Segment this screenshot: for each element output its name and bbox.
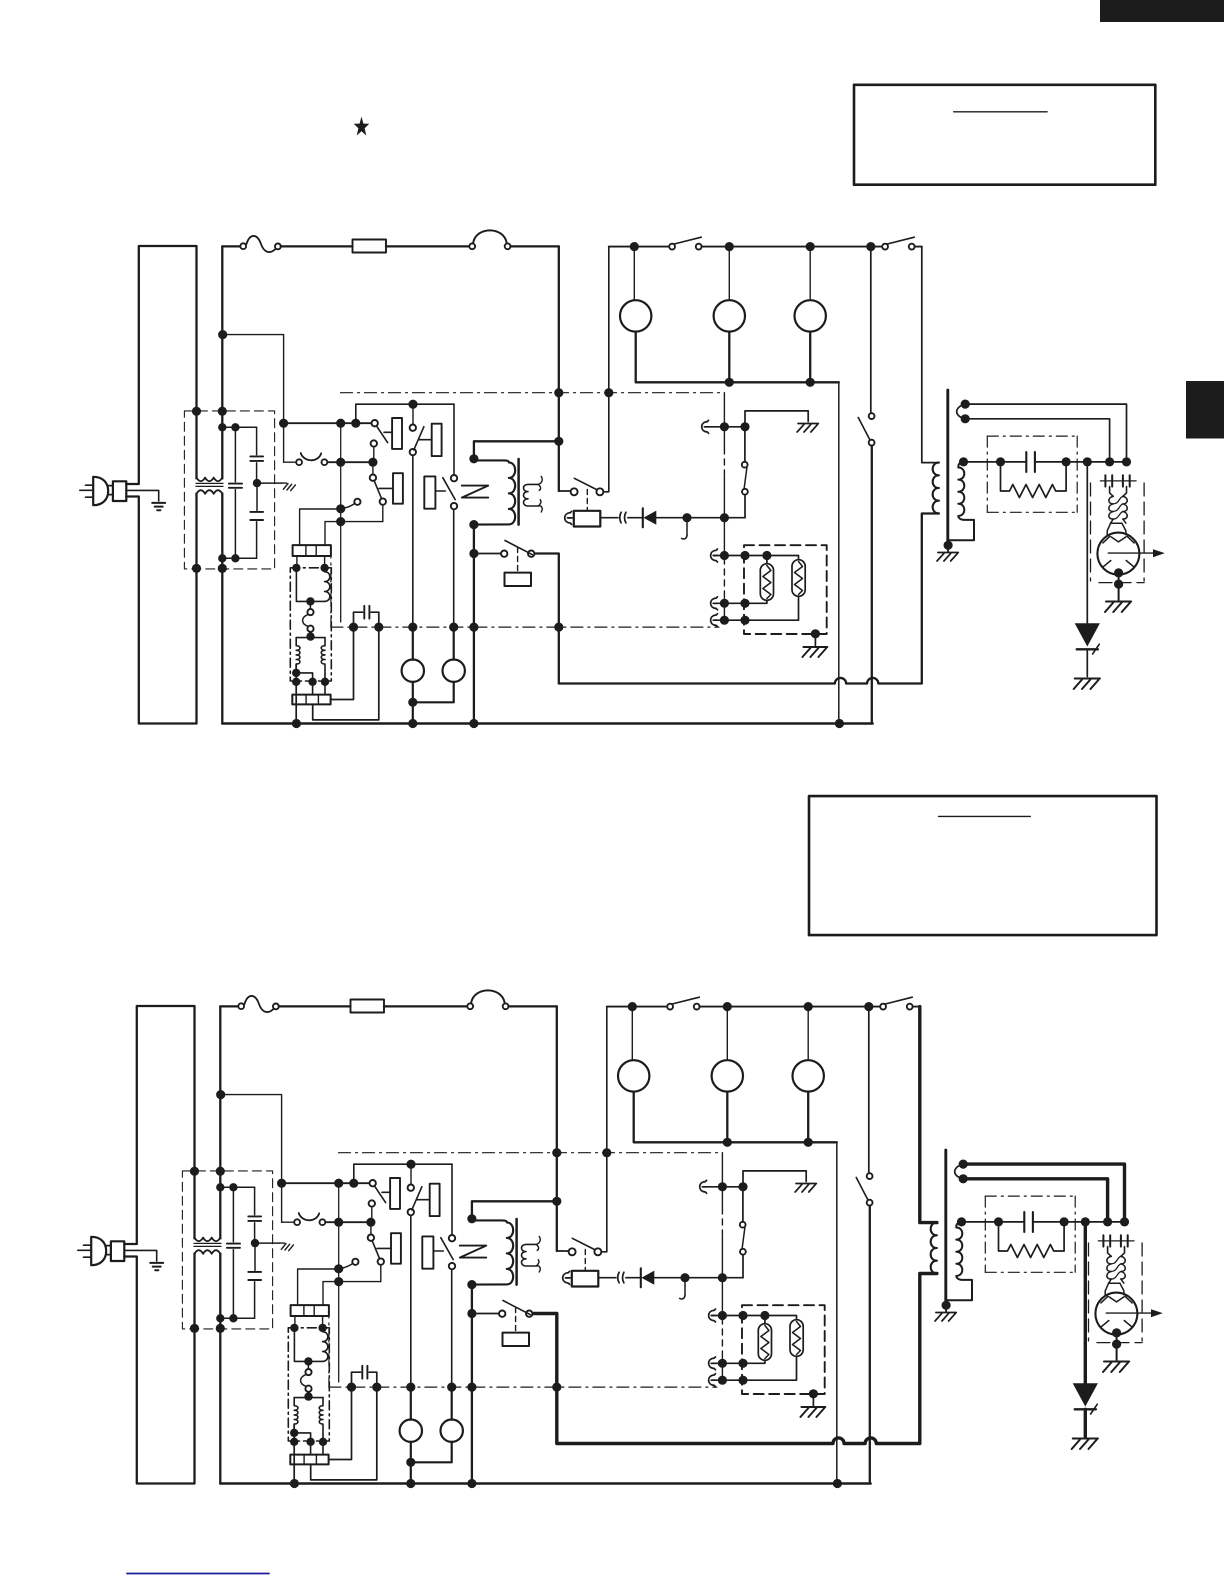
relay RY5 armature mark <box>462 486 488 498</box>
switch S2 secondary interlock <box>296 459 302 465</box>
schematic bottom model <box>78 990 1163 1488</box>
node motor junction J33 <box>406 1458 415 1467</box>
node lamp bus J5 <box>723 1138 732 1147</box>
transformer HVT secondary winding <box>948 462 974 540</box>
AC plug P1 prongs <box>78 1245 91 1257</box>
switch S5 relay contact <box>569 1248 576 1255</box>
wire thermistor branch <box>744 495 746 518</box>
node relay row J13 <box>336 419 345 428</box>
motor TTM turntable <box>714 300 745 331</box>
node filter input L <box>192 407 201 416</box>
link S4 dashed <box>515 1308 517 1333</box>
node motor junction J33 <box>408 698 417 707</box>
wire cabinet outline left loop <box>124 1006 194 1484</box>
wire fuse to thermal cutout <box>384 1005 467 1007</box>
wire power relay feed <box>472 1201 557 1219</box>
wire heater row mid <box>709 1357 716 1370</box>
node filter cap A tap <box>229 1183 237 1191</box>
wire relay row upper <box>282 1182 370 1184</box>
page corner tab black <box>1100 0 1224 22</box>
wire LVT mid lead <box>296 673 312 695</box>
node mid row J17 <box>368 458 377 467</box>
link S5 dashed <box>584 1250 586 1271</box>
capacitor CP control <box>354 612 363 627</box>
wire control column <box>340 423 342 622</box>
wire CP left lead to TB2 <box>329 1387 352 1459</box>
wire HV diode feed <box>1084 1222 1087 1383</box>
switch S2 secondary interlock <box>294 1219 300 1225</box>
node HVT filament tap B <box>961 414 970 423</box>
node filter bottom cap tap <box>231 554 239 562</box>
wire S5 right to rail drop <box>603 247 608 492</box>
ground heater earth <box>800 1407 825 1417</box>
wire HV line right of capacitor <box>1033 1221 1125 1223</box>
solenoid S4 coil body <box>505 573 532 586</box>
magnetron filament feedthrough marks <box>1100 480 1136 482</box>
node LVT out C <box>321 678 329 686</box>
node HVT filament tap A <box>959 1160 968 1169</box>
magnetron internal electrodes <box>1111 537 1126 542</box>
link S5 dashed <box>586 490 588 511</box>
node HV line J8 <box>1060 1217 1069 1226</box>
wire diode row to corner <box>656 517 745 519</box>
terminal CN1 open <box>352 1259 358 1265</box>
switch S3 monitor <box>869 413 875 419</box>
node HV line J8 <box>1062 457 1071 466</box>
node heater mid J29 <box>718 1359 727 1368</box>
node filter bottom N tap <box>216 1314 224 1322</box>
motor TTM turntable <box>712 1060 743 1091</box>
node main line J20 <box>554 437 563 446</box>
diode DH high voltage <box>1075 623 1100 646</box>
node power relay top <box>469 454 478 463</box>
wire filament lead upper <box>963 1164 1124 1218</box>
relay coil RY1 body <box>392 418 402 449</box>
node upper row J24 <box>718 1182 727 1191</box>
wire filter top row <box>222 426 256 428</box>
wire relay mid row <box>325 1221 372 1223</box>
capacitor CF1 across line <box>232 1187 234 1242</box>
wire TB1 right down <box>322 1316 324 1328</box>
node HV line J10 <box>1103 1217 1112 1226</box>
node control J18 <box>334 1264 343 1273</box>
wire control column <box>338 1183 340 1382</box>
wire J18 to terminal board <box>300 509 341 545</box>
transformer HVT filament winding curl <box>955 1165 963 1179</box>
node filter output N <box>216 1324 225 1333</box>
magnetron filament feedthrough marks <box>1098 1240 1134 1242</box>
node bus J34 <box>406 1479 415 1488</box>
wire motor FM feed <box>809 247 811 301</box>
relay RY5 core <box>517 459 520 525</box>
wire RY4 feed drop <box>453 404 455 475</box>
capacitor box dashed outline <box>985 1195 1075 1197</box>
LVT box dash-dot outline <box>288 1328 329 1441</box>
wire rail to monitor branch <box>701 246 882 248</box>
wire LVT left lead to bus <box>295 664 297 723</box>
wire control neutral column <box>721 1153 723 1208</box>
capacitor CF2 line to earth upper <box>254 1187 256 1214</box>
node LVT out C <box>319 1438 327 1446</box>
wire cabinet outline left loop <box>126 246 196 724</box>
node heater bottom J31 <box>718 1376 727 1385</box>
wire top live from corner to door switch <box>222 245 240 247</box>
note box 1 <box>854 85 1155 185</box>
capacitor box dashed outline <box>987 435 1077 437</box>
wire branch to relay column <box>223 335 284 463</box>
connector marks inline <box>620 512 626 523</box>
capacitor CF3 line to earth lower <box>254 1243 256 1270</box>
node magnetron box ground tap <box>1112 1340 1121 1349</box>
wire power relay drop <box>473 525 475 554</box>
wire motor TTM to bus <box>726 1092 728 1143</box>
connector marks inline <box>618 1272 624 1283</box>
node boundary crossing B2 <box>602 1148 611 1157</box>
node LVT primary bottom <box>304 1357 312 1365</box>
node main line J20 <box>552 1197 561 1206</box>
wire HV secondary line <box>962 1221 1025 1223</box>
node filter output N <box>218 564 227 573</box>
relay contact RY1 <box>370 1180 376 1186</box>
wire RY2 feed <box>410 1164 412 1184</box>
wire J19 to RY3 contact <box>341 521 383 523</box>
node relay row J14 <box>351 419 360 428</box>
lamp OL1 oven lamp <box>618 1060 649 1091</box>
wire HV line right of capacitor <box>1035 461 1127 463</box>
node relay top bar J15 <box>408 400 417 409</box>
link S4 dashed <box>517 548 519 573</box>
node rail junction J1 <box>628 1002 637 1011</box>
ground control earth <box>795 1184 816 1193</box>
switch S7 thermostat <box>742 489 748 495</box>
node HV line J10 <box>1105 457 1114 466</box>
node LVT in A <box>292 564 300 572</box>
node magnetron cathode <box>1112 1328 1121 1337</box>
wire RY3 to lower node <box>380 1265 382 1282</box>
node boundary crossing B2 <box>604 388 613 397</box>
ground control earth <box>797 424 818 433</box>
wire motor TM to bus <box>412 682 414 724</box>
node lamp bus J5 <box>725 378 734 387</box>
note box 1 title line <box>954 111 1047 113</box>
node bus tap LVT <box>292 719 301 728</box>
node boundary crossing B8 <box>552 1383 561 1392</box>
ground plug earth symbol <box>152 503 165 510</box>
node HV line J9 diode tap <box>1083 457 1092 466</box>
wire top live from corner to door switch <box>220 1005 238 1007</box>
wire heater row top <box>711 549 718 562</box>
capacitor CP control <box>352 1372 361 1387</box>
node control J19 <box>336 517 345 526</box>
thermal cutout TC1 <box>467 1003 473 1009</box>
wire magnetron output line with arrow <box>1108 552 1153 554</box>
wire relay top bar <box>356 404 454 423</box>
wire rail to monitor branch <box>699 1006 880 1008</box>
node LVT secondary left tap <box>292 669 300 677</box>
node bus J36 <box>833 1479 842 1488</box>
wire S5 right to rail drop <box>601 1007 606 1252</box>
magnetron box dashed outline <box>1090 483 1092 581</box>
node LVT primary bottom <box>306 597 314 605</box>
node LVT in B <box>320 564 328 572</box>
wire motor TTM feed <box>728 247 730 301</box>
node bus J35 <box>467 1479 476 1488</box>
node LVT secondary top <box>306 632 314 640</box>
heater H1 element <box>760 564 773 601</box>
noise filter box dashed outline <box>184 411 274 569</box>
hook connector RC left <box>565 511 572 524</box>
node filter input L <box>190 1167 199 1176</box>
node boundary crossing B8 <box>554 623 563 632</box>
wire door switch to fuse <box>281 245 353 247</box>
wire heater row mid <box>711 597 718 610</box>
AC plug P1 body <box>93 477 108 505</box>
AC plug P1 prongs <box>80 485 93 497</box>
relay contact RY2 <box>408 1185 414 1191</box>
relay RY5 sense coil <box>524 484 539 506</box>
plug cord block <box>111 1241 124 1261</box>
wire lamp bus drop to neutral <box>836 1142 838 1483</box>
wire main live drop L1 <box>556 1006 558 1251</box>
wire J25 to chassis ground <box>745 411 808 427</box>
node boundary crossing B5 <box>408 623 417 632</box>
switch S1 primary interlock <box>240 243 246 249</box>
transformer HVT filament winding curl <box>957 405 965 419</box>
node mid row J16 <box>336 458 345 467</box>
node start switch J21 <box>467 1309 476 1318</box>
node rail junction J4 <box>866 242 875 251</box>
diode D2 turntable <box>642 508 644 527</box>
wire filament lead lower <box>963 1179 1107 1218</box>
wire lamp bottom bus <box>636 332 839 383</box>
node boundary crossing B7 <box>467 1383 476 1392</box>
node upper row J24 <box>720 422 729 431</box>
wire TB1 left down <box>296 556 298 568</box>
node HV line J9 diode tap <box>1081 1217 1090 1226</box>
wire TB1 left down <box>294 1316 296 1328</box>
node heater top J26 <box>718 1311 727 1320</box>
relay RY5 core <box>515 1219 518 1285</box>
control board boundary dash-dot top <box>341 392 725 394</box>
resistor RH bleeder <box>1001 462 1067 498</box>
relay RY5 sense coil <box>522 1244 537 1266</box>
control board boundary dash-dot left <box>328 1306 330 1387</box>
ground filter earth symbol <box>282 483 296 491</box>
heater H1 element <box>758 1324 771 1361</box>
wire S7 to upper row <box>744 427 746 462</box>
switch S5 relay contact <box>571 488 578 495</box>
node LVT out A <box>290 1438 298 1446</box>
node filter row N tap <box>218 423 226 431</box>
motor FM2 fan <box>441 1420 463 1442</box>
terminal board TB1 <box>291 1305 329 1316</box>
wire relay row upper <box>284 422 372 424</box>
wire lamp bottom bus <box>634 1092 837 1143</box>
wire HV return loop <box>534 514 939 684</box>
capacitor HVC plates <box>1024 1212 1033 1232</box>
wire J18 to terminal board <box>298 1269 339 1305</box>
node control J19 <box>334 1277 343 1286</box>
wire J25 to chassis ground <box>743 1171 806 1187</box>
node boundary crossing B3 <box>349 623 358 632</box>
motor FM fan <box>793 1060 824 1091</box>
wire plug earth lead <box>124 1250 156 1261</box>
wire RY3 stub <box>372 462 374 474</box>
switch S7 thermostat <box>740 1249 746 1255</box>
node power relay bottom <box>467 1280 476 1289</box>
wire motor TM to bus <box>410 1442 412 1484</box>
wire RY4 to motor fan <box>453 509 455 627</box>
terminal board TB2 <box>292 695 330 705</box>
wire power relay drop <box>471 1285 473 1314</box>
node boundary crossing B3 <box>347 1383 356 1392</box>
magnetron antenna dome <box>1109 1279 1124 1283</box>
node LVT out B <box>306 1438 314 1446</box>
relay contact RY2 <box>410 425 416 431</box>
wire bottom neutral bus <box>222 722 872 725</box>
node lamp bus J6 <box>804 1138 813 1147</box>
fuse F1 <box>351 1000 385 1013</box>
node HVT filament tap B <box>959 1174 968 1183</box>
node HVT filament tap A <box>961 400 970 409</box>
star marker <box>354 117 370 136</box>
node relay row J12 <box>277 1179 286 1188</box>
node rail junction J3 <box>804 1002 813 1011</box>
node heater box ground tap <box>809 1389 818 1398</box>
wire monitor switch to bus <box>869 1206 871 1484</box>
wire lamp OL1 feed <box>633 247 635 301</box>
relay coil RC body <box>574 511 601 527</box>
AC plug P1 body <box>91 1237 106 1265</box>
switch S4 start relay contact <box>501 551 507 557</box>
wire TB1 right down <box>324 556 326 568</box>
wire J19 to terminal board <box>325 522 341 546</box>
ground plug earth symbol <box>150 1263 163 1270</box>
control board boundary dash-dot bottom <box>331 626 719 628</box>
wire motor FM to bus <box>809 332 811 383</box>
wire heater ground stub <box>814 634 816 646</box>
node LVT secondary left tap <box>290 1429 298 1437</box>
heater H2 element <box>792 560 805 597</box>
wire rail end corner down <box>913 1006 920 1008</box>
wire motor TT drop <box>410 1387 412 1420</box>
ground filter earth symbol <box>280 1243 294 1251</box>
wire plug to cabinet <box>106 1246 111 1255</box>
node power relay bottom <box>469 520 478 529</box>
node power relay top <box>467 1214 476 1223</box>
node diode row J22 <box>682 513 691 522</box>
wire motor FM to bus <box>807 1092 809 1143</box>
wire RY2 to motor TT <box>412 455 414 627</box>
wire plug earth lead <box>126 490 158 501</box>
wire thermal cutout to main corner <box>510 245 558 247</box>
wire HV diode to ground <box>1086 649 1088 676</box>
node heater top J28 <box>762 551 771 560</box>
wire HV secondary line <box>964 461 1027 463</box>
ground HV diode earth <box>1072 1439 1098 1450</box>
fuse F1 <box>353 240 387 253</box>
node heater mid J30 <box>738 1359 747 1368</box>
wire LVT left lead to bus <box>293 1424 295 1483</box>
node branch N tap <box>218 330 227 339</box>
magnetron MG tube <box>1097 533 1139 575</box>
wire filament lead upper <box>965 404 1126 458</box>
node heater bottom J31 <box>720 616 729 625</box>
node HV line J0 secondary top <box>959 457 968 466</box>
node boundary crossing B6 <box>447 1383 456 1392</box>
wire S7 to upper row <box>742 1187 744 1222</box>
node rail junction J3 <box>806 242 815 251</box>
control board boundary dash-dot left <box>330 546 332 627</box>
inductor LF common mode choke <box>195 479 224 492</box>
wire thermistor branch <box>742 1255 744 1278</box>
wire S5 feed <box>557 1250 569 1252</box>
node boundary crossing B1 <box>552 1148 561 1157</box>
wire motor TTM to bus <box>728 332 730 383</box>
schematic top model <box>80 230 1165 728</box>
capacitor CF1 across line <box>234 427 236 482</box>
motor TM stirrer <box>402 660 424 682</box>
wire connector to diode <box>628 517 643 519</box>
wire power relay feed <box>474 441 559 459</box>
node HV line J11 <box>1122 457 1131 466</box>
node HV line J7 <box>994 1217 1003 1226</box>
transformer LVT secondary <box>294 1397 323 1399</box>
wire rail end corner down <box>915 246 922 248</box>
wire motor FM2 to junction <box>411 1442 452 1462</box>
node mid row J17 <box>366 1218 375 1227</box>
wire interlock S2 left lead <box>282 1221 295 1223</box>
node heater top J27 <box>740 551 749 560</box>
relay RY5 power coil <box>474 460 515 524</box>
node heater bottom J32 <box>738 1376 747 1385</box>
solenoid S4 coil body <box>503 1333 530 1346</box>
node rail junction J2 <box>723 1002 732 1011</box>
terminal board TB1 <box>293 545 331 556</box>
wire RY1 to mid row <box>373 447 375 463</box>
wire upper hook row <box>700 1180 707 1193</box>
node LVT in B <box>318 1324 326 1332</box>
relay coil RY3 body <box>391 1233 401 1264</box>
wire thermal cutout to main corner <box>508 1005 556 1007</box>
wire motor TT drop <box>412 627 414 660</box>
wire HV primary feed upper <box>922 247 939 463</box>
node start switch J21 <box>469 549 478 558</box>
wire power relay column lower <box>473 554 475 724</box>
wire upper hook row <box>702 420 709 433</box>
thermal cutout TC1 <box>469 243 475 249</box>
wire heater row bottom <box>709 1374 716 1387</box>
capacitor CF2 line to earth upper <box>256 427 258 454</box>
wire control neutral column <box>723 393 725 448</box>
wire heater ground stub <box>812 1394 814 1406</box>
node boundary crossing B4 <box>372 1383 381 1392</box>
wire heater row bottom <box>711 614 718 627</box>
node filter earth junction <box>253 479 261 487</box>
wire fuse to thermal cutout <box>386 245 469 247</box>
wire motor TTM feed <box>726 1007 728 1061</box>
node HV line J7 <box>996 457 1005 466</box>
wire motor FM2 drop <box>453 627 455 660</box>
relay contact RY3 <box>368 1235 374 1241</box>
wire LVT mid lead <box>294 1433 310 1455</box>
capacitor HVC plates <box>1026 452 1035 472</box>
magnetron box dashed outline <box>1088 1243 1090 1341</box>
node relay row J13 <box>334 1179 343 1188</box>
ground magnetron earth <box>1105 602 1131 613</box>
node LVT out B <box>308 678 316 686</box>
node boundary crossing B6 <box>449 623 458 632</box>
